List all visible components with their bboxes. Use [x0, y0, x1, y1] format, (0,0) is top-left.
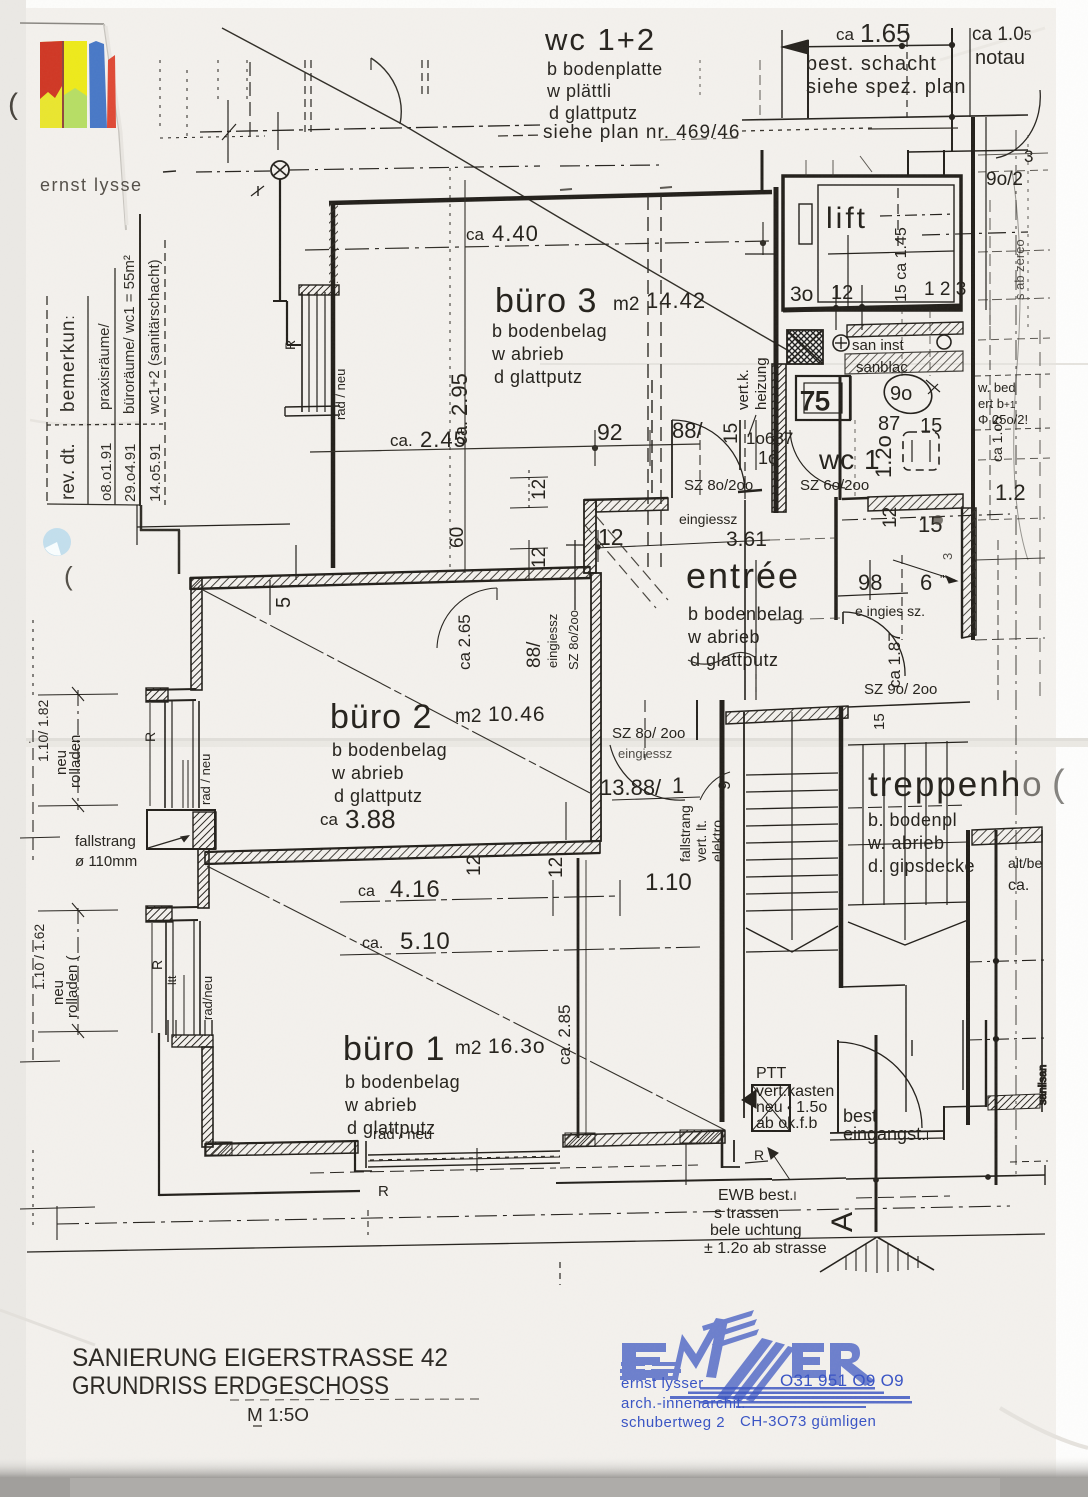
svg-text:12: 12	[464, 855, 485, 876]
svg-text:vert.k.: vert.k.	[735, 369, 752, 410]
svg-text:ca.: ca.	[390, 431, 413, 450]
svg-text:ca 1.05: ca 1.05	[972, 24, 1032, 45]
svg-text:3.61: 3.61	[726, 528, 767, 551]
svg-text:ca. 2.95: ca. 2.95	[447, 373, 472, 445]
paper subtle shading / creases	[0, 738, 1088, 741]
svg-text:d glattputz: d glattputz	[549, 103, 638, 123]
svg-text:büro 3: büro 3	[495, 282, 597, 320]
svg-text:16.3o: 16.3o	[488, 1035, 546, 1058]
svg-text:R: R	[754, 1147, 764, 1163]
ca 2.45 dim line	[310, 444, 700, 452]
svg-text:9o: 9o	[890, 383, 912, 405]
svg-text:3.88: 3.88	[345, 804, 396, 834]
svg-text:R: R	[149, 960, 165, 970]
wc door arc	[790, 430, 845, 488]
svg-text:1: 1	[672, 773, 684, 798]
long horizontal lines bottom	[20, 1143, 1048, 1285]
door arc top	[371, 58, 401, 124]
small dim '5' at top wall	[574, 540, 576, 610]
svg-text:o8.o1.91: o8.o1.91	[98, 443, 115, 501]
svg-text:ca.: ca.	[362, 935, 383, 952]
small right column texts	[940, 380, 1028, 560]
svg-text:GRUNDRISS ERDGESCHOSS: GRUNDRISS ERDGESCHOSS	[72, 1372, 389, 1400]
svg-text:ca: ca	[836, 25, 855, 44]
svg-text:75: 75	[800, 386, 830, 416]
svg-text:schubertweg 2: schubertweg 2	[621, 1414, 725, 1431]
büro 3 room label	[390, 221, 706, 548]
svg-text:elektro: elektro	[709, 820, 725, 862]
lower wall strip to bottom corner	[202, 1047, 213, 1147]
svg-text:ca: ca	[320, 810, 339, 829]
svg-text:1.2o: 1.2o	[871, 435, 896, 478]
svg-text:sanilsan: sanilsan	[1037, 1065, 1049, 1105]
paint logo	[40, 41, 62, 128]
svg-text:SZ 8o/ 2oo: SZ 8o/ 2oo	[612, 725, 685, 742]
south wall west segment (hatched)	[205, 1141, 358, 1156]
svg-text:12: 12	[880, 507, 901, 528]
svg-text:rad / neu: rad / neu	[198, 754, 213, 805]
svg-text:büro 2: büro 2	[330, 698, 432, 736]
clutter near wc / right wall	[756, 310, 930, 700]
svg-text:ernst lysser: ernst lysser	[621, 1375, 704, 1392]
svg-text:92: 92	[597, 419, 623, 445]
svg-text:15: 15	[920, 415, 942, 437]
porch outline	[556, 1179, 772, 1183]
west wall of wc lower part	[839, 376, 842, 500]
svg-text:1.10: 1.10	[645, 869, 692, 896]
svg-text:4.40: 4.40	[492, 221, 539, 246]
svg-text:s ab zereo: s ab zereo	[1012, 239, 1027, 300]
fallstrang / elektro rotated labels near stair	[677, 781, 734, 862]
south wall of wc (hatched)	[868, 494, 963, 511]
svg-text:b bodenbelag: b bodenbelag	[492, 321, 607, 341]
svg-text:praxisräume/: praxisräume/	[96, 322, 113, 410]
svg-text:10.46: 10.46	[488, 703, 546, 726]
svg-text:ernst lysse: ernst lysse	[40, 175, 143, 195]
dims in büro1	[358, 614, 692, 1065]
east walls of treppenhaus	[966, 830, 970, 1125]
svg-text:15: 15	[871, 713, 888, 730]
svg-text:san inst: san inst	[852, 337, 905, 354]
svg-text:98: 98	[858, 570, 882, 595]
svg-text:fallstrang: fallstrang	[75, 833, 136, 850]
ca 4.40 dim line	[305, 241, 770, 250]
R	[830, 1343, 875, 1386]
svg-text:CH-3O73 gümligen: CH-3O73 gümligen	[740, 1413, 876, 1430]
section line A-A	[875, 1035, 878, 1232]
entrance path dashed diagonals	[584, 516, 668, 608]
bay outline from survey point	[279, 179, 281, 301]
svg-text:w plättli: w plättli	[546, 81, 612, 101]
büro 2 room label	[320, 698, 546, 834]
E	[622, 1343, 668, 1378]
svg-text:entrée: entrée	[686, 555, 800, 596]
svg-text:m2: m2	[613, 294, 639, 315]
window labels left side	[31, 700, 215, 1020]
window column of bay (glazing lines)	[301, 292, 303, 412]
svg-text:12: 12	[831, 282, 853, 304]
wall strip below büro2 corner	[191, 578, 202, 690]
svg-text:14.42: 14.42	[646, 288, 706, 313]
dashed old wall vertical near corridor	[651, 380, 653, 500]
plan corner below table	[140, 505, 143, 531]
west stair wall	[720, 700, 725, 1122]
jog down at x≈355	[354, 1141, 356, 1172]
svg-text:(: (	[8, 88, 18, 121]
büro 1 room label	[343, 1030, 546, 1138]
svg-text:12: 12	[598, 524, 624, 550]
svg-text:w abrieb: w abrieb	[491, 344, 564, 364]
svg-text:29.o4.91: 29.o4.91	[122, 444, 139, 502]
svg-text:A: A	[826, 1212, 859, 1232]
svg-text:5.10: 5.10	[400, 928, 451, 955]
svg-text:w abrieb: w abrieb	[344, 1095, 417, 1115]
büro2 entry door arc	[437, 588, 497, 648]
svg-text:d. gipsdecke: d. gipsdecke	[868, 856, 975, 876]
svg-text:bele uchtung: bele uchtung	[710, 1222, 802, 1239]
svg-text:rad/neu: rad/neu	[200, 976, 215, 1020]
svg-text:d glattputz: d glattputz	[494, 367, 583, 387]
north wall of stair block (hatched)	[726, 706, 848, 724]
left dimension chain	[20, 620, 118, 1230]
svg-text:12: 12	[529, 479, 550, 500]
svg-text:88/: 88/	[524, 641, 545, 668]
svg-text:M 1:5O: M 1:5O	[247, 1405, 309, 1425]
svg-text:vert. lt.: vert. lt.	[693, 820, 709, 862]
door opening + arc (entrée north)	[672, 420, 745, 492]
west wall büro 3	[331, 201, 336, 568]
svg-text:notau: notau	[975, 47, 1025, 69]
top wall of büro 3	[329, 192, 772, 203]
svg-text:eingangst.l: eingangst.l	[843, 1124, 929, 1144]
svg-text:neu • 1.5o: neu • 1.5o	[756, 1099, 827, 1116]
svg-text:b bodenplatte: b bodenplatte	[547, 59, 663, 79]
svg-text:R: R	[378, 1183, 389, 1200]
svg-text:ca: ca	[358, 883, 375, 900]
svg-text:ca. 2.85: ca. 2.85	[555, 1005, 574, 1066]
svg-text:büro 1: büro 1	[343, 1030, 445, 1068]
svg-text:3: 3	[940, 553, 955, 560]
svg-text:O31 951 O9 O9: O31 951 O9 O9	[780, 1371, 904, 1390]
south windows strip	[368, 1151, 560, 1155]
svg-text:w. bed: w. bed	[977, 380, 1016, 395]
svg-text:± 1.2o ab strasse: ± 1.2o ab strasse	[704, 1240, 827, 1257]
E2	[792, 1343, 826, 1378]
svg-text:m2: m2	[455, 1038, 481, 1059]
svg-text:rad / neu: rad / neu	[333, 369, 348, 420]
svg-text:(: (	[1052, 763, 1065, 805]
svg-text:alt/be: alt/be	[1008, 855, 1042, 871]
svg-text:ø 110mm: ø 110mm	[75, 853, 137, 870]
svg-text:m2: m2	[455, 706, 481, 727]
svg-text:12: 12	[529, 547, 550, 568]
svg-text:büroräume/ wc1 = 55m²: büroräume/ wc1 = 55m²	[121, 255, 138, 414]
treads of lower flight	[746, 773, 838, 775]
svg-text:SZ 8o/2oo: SZ 8o/2oo	[566, 610, 581, 670]
svg-text:fallstrang: fallstrang	[677, 805, 693, 862]
down arrow	[746, 926, 838, 952]
svg-text:arch.-innenarchit.: arch.-innenarchit.	[621, 1395, 746, 1412]
fallstrang arrow	[148, 836, 188, 848]
corridor south of wc dims	[842, 514, 1010, 520]
svg-text:9: 9	[715, 781, 734, 790]
hole punch	[43, 528, 71, 556]
PTT kasten	[752, 1085, 790, 1131]
svg-text:13.88/: 13.88/	[600, 775, 662, 800]
outer boundary lines	[158, 1033, 160, 1196]
corner hatched wall to right at corridor top	[596, 498, 668, 512]
svg-text:SZ 6o/2oo: SZ 6o/2oo	[800, 477, 869, 494]
svg-text:sanblac: sanblac	[856, 359, 908, 376]
dashed removed-wall lines through büro 3	[305, 168, 770, 573]
wall east of entrée lower	[834, 497, 838, 620]
sanitärschacht vertical hatched wall	[962, 508, 976, 638]
svg-text:ca 1.87: ca 1.87	[885, 632, 904, 688]
svg-text:ca 1.o5: ca 1.o5	[989, 416, 1005, 462]
east wall of büro 1	[577, 858, 580, 1138]
svg-text:5: 5	[273, 597, 295, 608]
scanner bed strip at bottom	[0, 1478, 1088, 1497]
long diagonal (upper)	[222, 28, 789, 351]
survey point	[271, 161, 289, 179]
svg-text:heizung: heizung	[753, 357, 770, 410]
svg-text:wc1+2 (sanitärschacht): wc1+2 (sanitärschacht)	[146, 259, 163, 415]
svg-text:3: 3	[1024, 147, 1033, 166]
svg-text:SZ 9o/ 2oo: SZ 9o/ 2oo	[864, 681, 937, 698]
south wall east segment (hatched)	[563, 1131, 725, 1147]
east stair wall	[839, 706, 844, 988]
svg-text:ca.: ca.	[1008, 877, 1029, 894]
svg-text:e ingies sz.: e ingies sz.	[855, 603, 925, 619]
window B glazing	[165, 921, 167, 1035]
svg-text:s trassen: s trassen	[714, 1205, 779, 1222]
street arrow	[820, 1237, 877, 1272]
svg-text:eingiessz: eingiessz	[545, 614, 560, 668]
svg-text:rad / neu: rad / neu	[373, 1126, 432, 1143]
diagonals through büro2 and büro1	[203, 590, 590, 793]
svg-text:12: 12	[546, 857, 567, 878]
svg-text:lift: lift	[826, 202, 868, 235]
svg-text:1o: 1o	[758, 448, 778, 468]
right side below porch	[1010, 1161, 1048, 1162]
treppenhaus entry door	[843, 612, 905, 676]
svg-text:ab ok.f.b: ab ok.f.b	[756, 1115, 817, 1132]
svg-text:1 2 3: 1 2 3	[924, 279, 966, 300]
porch east side steps	[837, 1040, 839, 1133]
svg-text:87: 87	[878, 413, 900, 435]
svg-text:": "	[940, 572, 945, 587]
svg-text:vert.kasten: vert.kasten	[756, 1083, 834, 1100]
pillar	[147, 810, 215, 849]
svg-text:siehe plan nr. 469/46: siehe plan nr. 469/46	[543, 122, 740, 143]
svg-text:1.10/ 1.82: 1.10/ 1.82	[35, 700, 51, 762]
svg-text:ltt: ltt	[165, 975, 179, 985]
svg-text:w abrieb: w abrieb	[331, 763, 404, 783]
svg-text:.: .	[28, 731, 32, 746]
svg-text:b bodenbelag: b bodenbelag	[345, 1072, 460, 1092]
step at y 908	[146, 907, 198, 908]
wall strip to divider	[198, 849, 209, 908]
svg-text:eingiessz: eingiessz	[679, 511, 737, 527]
svg-text:best: best	[843, 1106, 877, 1126]
svg-text:1.2: 1.2	[995, 480, 1026, 505]
cistern dashed	[903, 432, 939, 470]
svg-text:15 ca 1.45: 15 ca 1.45	[893, 227, 910, 302]
toilet 1	[880, 370, 936, 418]
svg-text:bemerkun:: bemerkun:	[58, 314, 79, 412]
svg-text:PTT: PTT	[756, 1065, 786, 1082]
svg-text:SZ 8o/2oo: SZ 8o/2oo	[684, 477, 753, 494]
svg-text:R: R	[142, 732, 158, 742]
svg-text:w abrieb: w abrieb	[687, 627, 760, 647]
svg-text:(: (	[64, 561, 73, 591]
svg-text:b bodenbelag: b bodenbelag	[332, 740, 447, 760]
svg-text:treppenho: treppenho	[868, 765, 1044, 804]
M	[672, 1318, 728, 1379]
card edges	[20, 23, 104, 24]
step out at y 690	[146, 689, 196, 690]
sill block under window B	[172, 1035, 213, 1047]
svg-text:9o/2: 9o/2	[986, 169, 1023, 190]
svg-text:14.o5.91: 14.o5.91	[147, 444, 164, 502]
svg-text:b. bodenpl: b. bodenpl	[868, 810, 957, 830]
window A glazing	[164, 701, 166, 808]
svg-text:siehe spez. plan: siehe spez. plan	[806, 76, 967, 98]
upper flight treads (vertical)	[862, 745, 864, 905]
svg-text:w. abrieb: w. abrieb	[867, 833, 945, 853]
left dim line for bay width	[137, 524, 290, 527]
top-left dimension line and ticks	[160, 60, 540, 172]
svg-text:ca 2.65: ca 2.65	[455, 614, 474, 670]
svg-text:SANIERUNG EIGERSTRASSE 42: SANIERUNG EIGERSTRASSE 42	[72, 1344, 448, 1372]
svg-text:ca: ca	[466, 225, 485, 244]
svg-text:4.16: 4.16	[390, 876, 441, 903]
svg-text:R: R	[282, 340, 298, 350]
svg-text:15: 15	[721, 423, 742, 444]
svg-text:wc 1+2: wc 1+2	[544, 22, 656, 57]
S diagonal band	[716, 1338, 773, 1401]
extra scan clutter right column	[560, 60, 1050, 700]
svg-text:best. schacht: best. schacht	[806, 53, 937, 75]
svg-text:rev. dt.: rev. dt.	[58, 443, 79, 500]
svg-text:6: 6	[920, 570, 932, 595]
svg-text:3o: 3o	[790, 283, 813, 306]
svg-text:d glattputz: d glattputz	[334, 786, 423, 806]
svg-text:rolladen: rolladen	[67, 735, 84, 788]
svg-text:EWB best.l: EWB best.l	[718, 1187, 796, 1204]
EWB leader	[770, 1150, 790, 1180]
